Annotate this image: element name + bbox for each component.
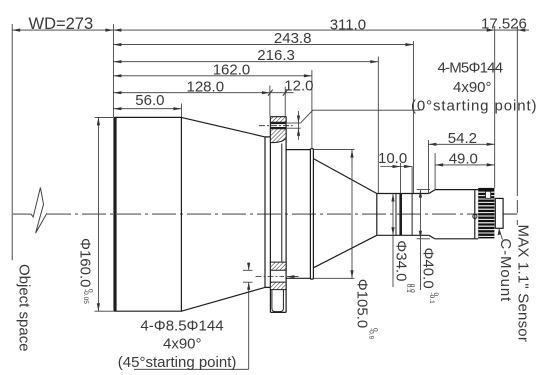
svg-text:17.526: 17.526 [481, 15, 527, 32]
Phi8.5 arrows (outside) [247, 263, 250, 271]
knurled ring [478, 188, 494, 239]
row6 56.0 [113, 107, 121, 110]
svg-text:12.0: 12.0 [284, 77, 313, 94]
extension line 128.0 / 12.0 left [269, 86, 271, 117]
Phi105 [350, 150, 353, 158]
extension line 54.2 left [427, 140, 429, 193]
extension line 216.3 right [377, 57, 379, 194]
svg-text:56.0: 56.0 [135, 92, 164, 109]
svg-text:C-Mount: C-Mount [497, 238, 514, 302]
Phi40 dim line [419, 190, 421, 290]
C-Mount leader [499, 229, 503, 240]
Phi40 [419, 190, 422, 198]
svg-text:(45°starting point): (45°starting point) [118, 354, 237, 371]
svg-text:4-Φ8.5Φ144: 4-Φ8.5Φ144 [140, 318, 223, 335]
Phi105 barrel [286, 150, 310, 279]
front barrel thick face [113, 117, 116, 311]
svg-text:216.3: 216.3 [257, 47, 295, 64]
M5 leader [301, 110, 420, 123]
M5 hole small dim [298, 111, 300, 140]
svg-text:54.2: 54.2 [448, 130, 477, 147]
extension line 56.0 right [180, 104, 182, 118]
dim row 2: 243.8 [113, 44, 413, 46]
ring before knurl [475, 190, 478, 239]
centerline [13, 213, 517, 215]
row5 128.0 [113, 91, 121, 94]
front barrel (Phi160 box) [113, 117, 181, 311]
dim row 4: 162.0 [113, 75, 312, 77]
extension line 311.0 right / C-mount flange face [494, 26, 496, 188]
svg-text:Φ160.0: Φ160.0 [77, 238, 94, 288]
Phi8.5 small dim [248, 263, 250, 271]
Phi34 dim line [392, 194, 394, 288]
rear cone bottom edge [313, 235, 376, 267]
extension lines 10.0 [400, 163, 402, 193]
chamfer to Phi40 [429, 190, 435, 239]
svg-text:4x90°: 4x90° [163, 335, 202, 352]
object plane line [11, 24, 13, 260]
knurl top notch [486, 191, 491, 198]
svg-text:4-M5Φ144: 4-M5Φ144 [438, 60, 503, 77]
svg-text:-0.9: -0.9 [368, 328, 375, 340]
svg-text:MAX 1.1" Sensor: MAX 1.1" Sensor [515, 225, 532, 343]
ring before flange [265, 137, 270, 288]
svg-text:0.1: 0.1 [405, 284, 412, 293]
extension line 12.0 right [284, 87, 286, 117]
tolerance stacks (tiny) [82, 284, 439, 340]
svg-text:10.0: 10.0 [378, 150, 407, 167]
set screw [473, 214, 477, 218]
cone end face [376, 194, 378, 236]
Phi160 dim line [97, 117, 99, 311]
10.0 two right arrows [393, 165, 401, 168]
dim 49.0 [435, 164, 495, 166]
M5 thread thick lines [270, 122, 286, 124]
M5 hole centerline [259, 125, 293, 127]
dim row 6: 56.0 [113, 108, 181, 110]
centerline segment stub to image plane [504, 213, 517, 215]
svg-text:Φ105.0: Φ105.0 [354, 279, 371, 329]
row4 162.0 [113, 74, 121, 77]
svg-text:311.0: 311.0 [330, 16, 366, 33]
svg-text:128.0: 128.0 [187, 78, 225, 95]
flange plate [270, 117, 286, 313]
dim row 1: WD / 311 / 17.526 [12, 29, 529, 31]
54.2 [428, 143, 436, 146]
Phi8.5 leader shelf [134, 368, 249, 370]
svg-text:-0.1: -0.1 [428, 293, 435, 305]
image plane line [516, 26, 518, 225]
Phi40 section [435, 190, 475, 239]
cone front-to-flange bottom edge [181, 287, 265, 311]
svg-text:(0°starting point): (0°starting point) [411, 98, 537, 115]
svg-text:243.8: 243.8 [274, 30, 312, 47]
rear cone top edge [313, 159, 376, 194]
flange bottom boss [272, 290, 284, 312]
C-mount thread stub [495, 198, 503, 228]
svg-text:Object space: Object space [16, 264, 33, 352]
svg-text:Φ40.0: Φ40.0 [419, 248, 436, 289]
dim row 5: 128.0 + 12.0 [113, 92, 293, 94]
M5 hole arrows (outside) [297, 116, 300, 124]
svg-text:-0.05: -0.05 [82, 289, 89, 304]
dim 54.2 [428, 143, 494, 145]
extension line 162.0 right [311, 70, 313, 148]
rear barrel groove lines [395, 194, 397, 236]
extension line 49.0 left [434, 153, 436, 189]
hole centerline arrow [287, 275, 295, 278]
break zigzag on centerline [31, 188, 47, 234]
svg-text:162.0: 162.0 [213, 62, 251, 79]
C-mount leader arrow [498, 228, 501, 235]
bottom boss hatch (Phi8.5 hole at 45deg) [270, 262, 286, 270]
Phi8.5 hole centerline [256, 276, 285, 278]
extension line front face [112, 24, 114, 117]
Phi34 [391, 194, 394, 202]
row1 arrows [12, 29, 20, 32]
hole centerline arrow tail [287, 276, 299, 278]
svg-text:4x90°: 4x90° [453, 79, 492, 96]
extension line 243.8 right [412, 41, 414, 193]
49.0 [435, 163, 443, 166]
Phi160 [97, 117, 100, 125]
ring at cone base [310, 149, 313, 279]
flange hatched bolt bosses [256, 117, 299, 290]
svg-text:49.0: 49.0 [449, 151, 478, 168]
row2 243.8 [113, 43, 121, 46]
rear barrel top/bottom [377, 194, 429, 236]
dim row 3: 216.3 [113, 61, 378, 63]
row3 216.3 [113, 60, 121, 63]
flange inner step line [281, 144, 283, 262]
svg-text:Φ34.0: Φ34.0 [392, 240, 409, 281]
top boss hatch upper part (M5 hole) [270, 117, 286, 123]
Phi105 dim line [351, 150, 353, 279]
svg-text:WD=273: WD=273 [29, 15, 94, 33]
12.0 slash ticks [268, 90, 288, 96]
dim 10.0 [380, 166, 412, 168]
cone front-to-flange top edge [181, 117, 265, 136]
